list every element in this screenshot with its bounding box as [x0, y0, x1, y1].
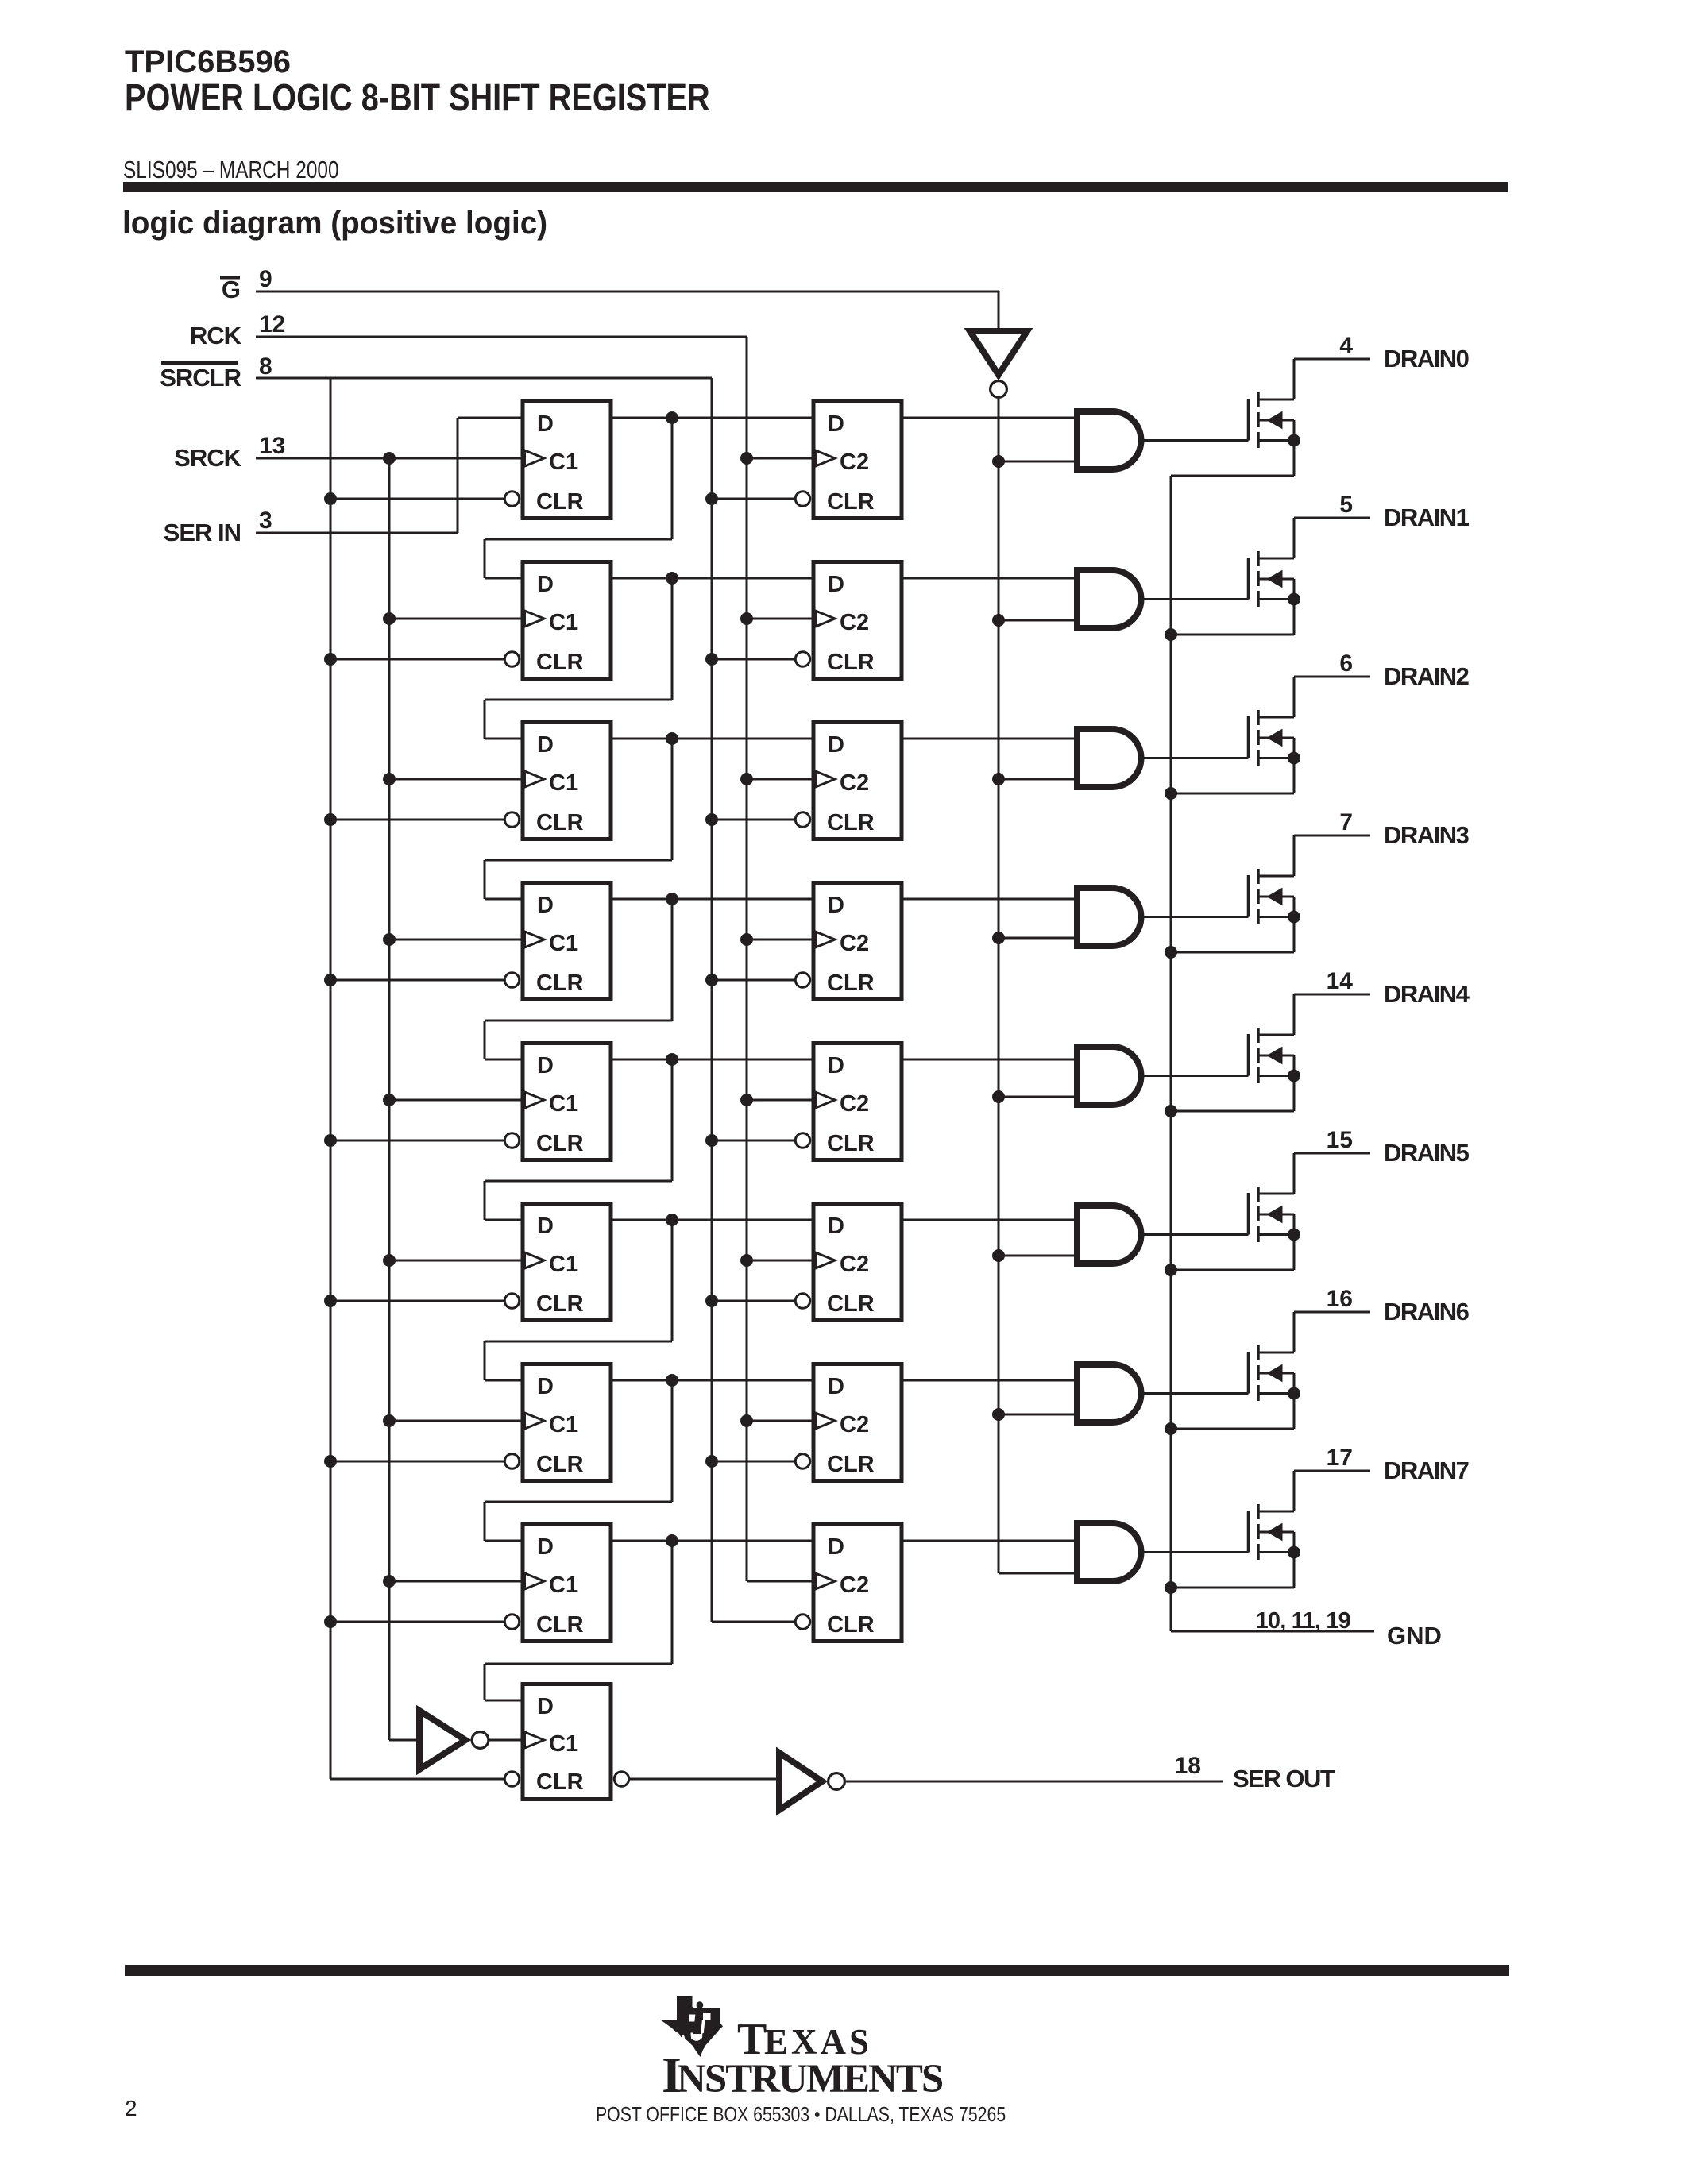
svg-text:D: D [537, 1534, 554, 1560]
svg-text:D: D [828, 1534, 844, 1560]
svg-text:D: D [537, 572, 554, 597]
svg-text:C1: C1 [549, 610, 578, 635]
svg-text:C2: C2 [840, 610, 869, 635]
svg-text:DRAIN4: DRAIN4 [1384, 980, 1470, 1008]
svg-text:CLR: CLR [536, 1291, 584, 1317]
svg-text:DRAIN2: DRAIN2 [1384, 662, 1469, 690]
svg-text:D: D [537, 893, 554, 918]
svg-text:EXAS: EXAS [764, 2022, 872, 2062]
svg-text:6: 6 [1339, 650, 1353, 677]
svg-text:DRAIN5: DRAIN5 [1384, 1139, 1470, 1167]
svg-text:10, 11, 19: 10, 11, 19 [1256, 1608, 1351, 1634]
svg-text:SER IN: SER IN [164, 519, 241, 546]
svg-text:D: D [828, 1053, 844, 1078]
svg-text:18: 18 [1175, 1753, 1201, 1779]
svg-text:D: D [537, 732, 554, 758]
svg-text:15: 15 [1327, 1127, 1353, 1153]
svg-text:RCK: RCK [190, 322, 242, 349]
svg-text:SRCLR: SRCLR [160, 364, 241, 392]
svg-text:9: 9 [259, 266, 272, 292]
svg-text:NSTRUMENTS: NSTRUMENTS [677, 2057, 943, 2101]
svg-text:13: 13 [259, 433, 285, 459]
svg-text:D: D [828, 893, 844, 918]
svg-text:D: D [828, 1214, 844, 1239]
svg-text:CLR: CLR [536, 1452, 584, 1477]
svg-text:CLR: CLR [536, 1612, 584, 1638]
svg-text:D: D [828, 732, 844, 758]
svg-text:14: 14 [1327, 968, 1354, 994]
svg-text:C2: C2 [840, 770, 869, 796]
svg-text:SER OUT: SER OUT [1233, 1765, 1335, 1792]
svg-text:3: 3 [259, 507, 272, 534]
svg-text:SRCK: SRCK [174, 444, 241, 472]
svg-text:C1: C1 [549, 450, 578, 475]
svg-text:8: 8 [259, 353, 272, 380]
svg-text:12: 12 [259, 311, 285, 338]
svg-text:C1: C1 [549, 1731, 578, 1757]
svg-text:D: D [537, 411, 554, 437]
svg-text:DRAIN0: DRAIN0 [1384, 345, 1469, 372]
svg-text:DRAIN7: DRAIN7 [1384, 1457, 1469, 1484]
svg-text:CLR: CLR [827, 970, 875, 996]
svg-text:C1: C1 [549, 770, 578, 796]
svg-text:G: G [222, 276, 241, 303]
svg-text:4: 4 [1339, 333, 1353, 359]
svg-text:D: D [828, 1374, 844, 1399]
svg-text:C1: C1 [549, 1572, 578, 1598]
svg-text:D: D [828, 572, 844, 597]
svg-text:D: D [537, 1053, 554, 1078]
svg-text:DRAIN6: DRAIN6 [1384, 1298, 1470, 1325]
svg-text:CLR: CLR [827, 1452, 875, 1477]
svg-text:CLR: CLR [827, 650, 875, 675]
svg-text:GND: GND [1387, 1622, 1442, 1650]
svg-text:17: 17 [1327, 1445, 1353, 1471]
svg-text:C1: C1 [549, 1252, 578, 1277]
svg-text:CLR: CLR [536, 1769, 584, 1795]
svg-text:D: D [828, 411, 844, 437]
svg-text:D: D [537, 1694, 554, 1719]
svg-text:CLR: CLR [827, 1131, 875, 1156]
svg-text:C1: C1 [549, 1412, 578, 1437]
svg-text:CLR: CLR [827, 1291, 875, 1317]
svg-text:C2: C2 [840, 450, 869, 475]
svg-text:7: 7 [1339, 809, 1353, 835]
svg-text:CLR: CLR [536, 1131, 584, 1156]
svg-text:16: 16 [1327, 1286, 1353, 1312]
svg-text:5: 5 [1339, 492, 1353, 518]
svg-text:D: D [537, 1214, 554, 1239]
svg-text:DRAIN3: DRAIN3 [1384, 821, 1470, 849]
svg-text:D: D [537, 1374, 554, 1399]
svg-text:CLR: CLR [536, 650, 584, 675]
svg-text:C2: C2 [840, 1412, 869, 1437]
svg-text:CLR: CLR [827, 1612, 875, 1638]
svg-text:CLR: CLR [827, 489, 875, 515]
svg-text:CLR: CLR [536, 489, 584, 515]
svg-text:CLR: CLR [536, 810, 584, 835]
svg-text:C2: C2 [840, 1252, 869, 1277]
svg-text:DRAIN1: DRAIN1 [1384, 504, 1470, 531]
svg-text:C2: C2 [840, 1572, 869, 1598]
svg-text:CLR: CLR [827, 810, 875, 835]
svg-text:CLR: CLR [536, 970, 584, 996]
svg-text:C1: C1 [549, 931, 578, 956]
svg-text:C2: C2 [840, 931, 869, 956]
svg-text:C2: C2 [840, 1091, 869, 1117]
svg-text:C1: C1 [549, 1091, 578, 1117]
